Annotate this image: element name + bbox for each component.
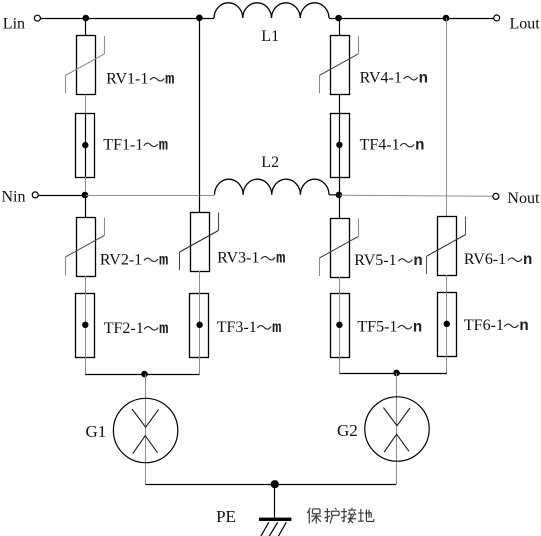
svg-text:G1: G1: [86, 422, 107, 441]
ground symbol (protective earth): [259, 518, 292, 536]
svg-text:G2: G2: [337, 421, 358, 440]
svg-text:Nout: Nout: [507, 190, 540, 207]
svg-text:n: n: [415, 137, 424, 155]
wire RV2 to TF2: [85, 276, 87, 293]
svg-text:RV4-1: RV4-1: [360, 70, 402, 87]
wire right bus: [339, 373, 446, 375]
varistor RV3: [180, 213, 286, 272]
terminal Lin: [3, 15, 41, 32]
thermal fuse TF1: [76, 113, 169, 177]
wire TF4 to N junction: [339, 177, 341, 196]
wire N junction to Nout: [339, 195, 492, 196]
svg-text:Nin: Nin: [2, 188, 26, 205]
svg-text:TF2-1: TF2-1: [104, 320, 144, 337]
svg-text:RV6-1: RV6-1: [464, 251, 506, 268]
terminal Nout: [493, 190, 540, 207]
label protective-earth 保护接地: [307, 508, 373, 524]
svg-text:Lin: Lin: [3, 16, 25, 33]
thermal fuse TF3: [190, 293, 282, 358]
wire TF1 to Nin node: [85, 177, 87, 195]
svg-text:RV5-1: RV5-1: [354, 252, 396, 269]
wire through G1 to PE line: [145, 374, 147, 484]
gas discharge tube G2: [337, 397, 429, 461]
svg-text:m: m: [276, 250, 285, 268]
svg-text:TF5-1: TF5-1: [357, 319, 397, 336]
svg-text:n: n: [413, 252, 422, 270]
svg-text:TF3-1: TF3-1: [217, 319, 257, 336]
wire TF3 to left bus: [199, 357, 201, 375]
svg-text:RV3-1: RV3-1: [217, 250, 259, 267]
inductor L1: [214, 3, 329, 45]
wire Nin to RV2: [85, 195, 87, 217]
svg-text:L2: L2: [261, 154, 279, 171]
svg-text:n: n: [419, 70, 428, 88]
svg-text:m: m: [159, 136, 168, 154]
junction top-left column: [83, 15, 90, 22]
wire through G2 to PE line: [396, 373, 398, 484]
wire top to RV1: [85, 18, 87, 36]
wire RV1 to TF1: [85, 95, 87, 114]
wire TF5 to right bus: [339, 357, 341, 374]
thermal fuse TF6: [438, 292, 529, 357]
wire top line to RV3: [199, 18, 201, 212]
wire TF6 to right bus: [446, 356, 448, 374]
wire RV5 to TF5: [339, 277, 341, 293]
wire RV3 to TF3: [199, 271, 201, 293]
inductor L2: [215, 154, 330, 195]
svg-text:TF4-1: TF4-1: [360, 137, 400, 154]
wire RV6 to TF6: [446, 275, 448, 292]
svg-text:m: m: [272, 319, 281, 337]
svg-text:m: m: [159, 320, 168, 338]
varistor RV5: [319, 219, 422, 278]
junction right bus / G2: [393, 370, 400, 377]
junction L1 right / RV4 branch: [335, 15, 342, 22]
junction Nin left column: [82, 192, 89, 199]
junction L2 right / TF4 / RV5 node: [336, 192, 343, 199]
svg-text:n: n: [519, 317, 528, 335]
thermal fuse TF5: [331, 293, 423, 358]
thermal fuse TF4: [331, 113, 425, 178]
wire Nin junction to L2: [85, 195, 214, 197]
svg-text:m: m: [159, 251, 168, 269]
svg-text:L1: L1: [261, 28, 279, 45]
svg-text:Lout: Lout: [510, 16, 541, 33]
svg-text:n: n: [413, 319, 422, 337]
svg-text:TF1-1: TF1-1: [103, 136, 143, 153]
terminal Lout: [494, 15, 541, 33]
varistor RV6: [427, 217, 533, 276]
wire left bus: [85, 374, 199, 376]
wire L2 to N junction: [329, 194, 339, 196]
wire top to RV4: [339, 18, 341, 35]
label PE: [216, 507, 236, 526]
svg-text:RV1-1: RV1-1: [106, 71, 148, 88]
junction PE: [271, 480, 279, 488]
wire Lout junction down to RV6: [446, 18, 448, 216]
varistor RV2: [65, 218, 168, 277]
wire RV4 to TF4: [339, 94, 341, 113]
wire L1 to Lout: [329, 18, 494, 20]
junction top-middle column: [196, 14, 203, 21]
thermal fuse TF2: [76, 293, 169, 358]
varistor RV4: [319, 36, 428, 95]
wire Lin to L1 (top L line): [41, 18, 214, 20]
svg-text:RV2-1: RV2-1: [100, 251, 142, 268]
varistor RV1: [65, 36, 174, 95]
wire Nin to junction: [38, 195, 85, 197]
junction top-right column: [443, 15, 450, 22]
wire TF2 to left bus: [85, 357, 87, 375]
ground stem: [274, 484, 276, 517]
junction left bus / G1: [141, 371, 148, 378]
wire N junction to RV5: [339, 195, 341, 218]
svg-text:PE: PE: [216, 507, 236, 526]
wire PE bus: [145, 484, 396, 486]
svg-text:TF6-1: TF6-1: [464, 317, 504, 334]
terminal Nin: [2, 188, 39, 205]
svg-text:m: m: [165, 71, 174, 89]
gas discharge tube G1: [86, 398, 178, 462]
svg-text:n: n: [523, 251, 532, 269]
